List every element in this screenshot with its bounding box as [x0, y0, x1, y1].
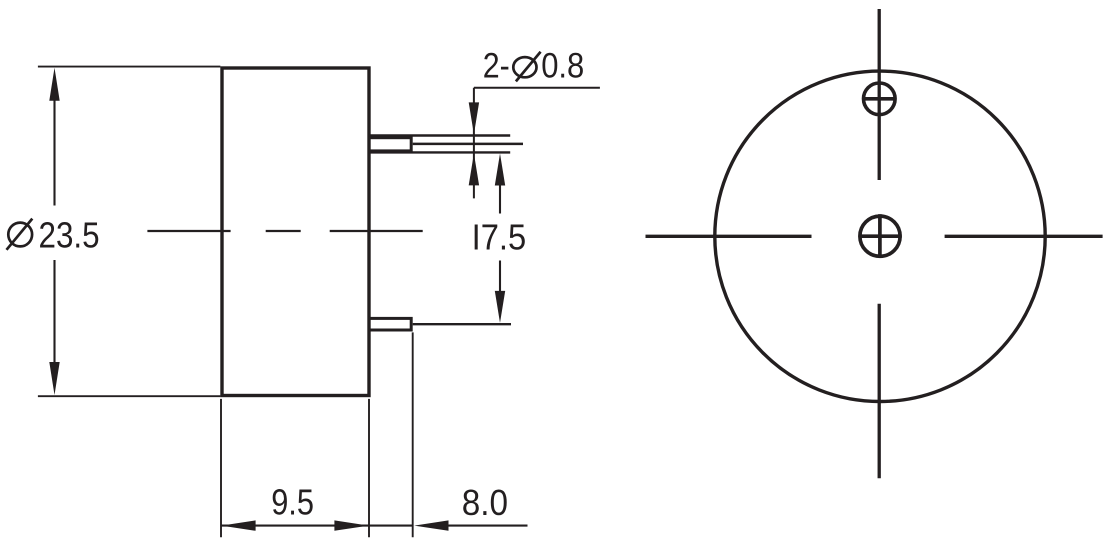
label 9.5: [271, 482, 314, 523]
lower pin stub: [369, 318, 411, 330]
label 17.5: [472, 216, 527, 257]
center line of body (side view): [147, 230, 422, 232]
dimension Ø23.5 line and arrows: [53, 99, 55, 364]
label Ø23.5: [7, 214, 100, 255]
leader line 2-Ø0.8: [474, 88, 600, 199]
dimension 17.5 upper arrow: [499, 184, 501, 214]
extension lines below body: [221, 332, 413, 537]
vertical center line (front view): [878, 9, 881, 478]
label 2-Ø0.8: [483, 47, 585, 86]
upper pin stub: [369, 138, 411, 151]
buzzer body outline (side view): [222, 68, 369, 396]
svg-text:9.5: 9.5: [271, 482, 314, 523]
svg-text:I7.5: I7.5: [472, 216, 527, 257]
horizontal center line (front view): [646, 235, 1103, 238]
label 8.0: [462, 482, 508, 523]
upper lead center line: [413, 143, 523, 146]
dimension Ø23.5 extension lines: [38, 67, 221, 397]
lower lead center line: [413, 323, 511, 325]
svg-text:0.8: 0.8: [541, 47, 584, 86]
buzzer face outline (front view): [715, 71, 1045, 401]
top pin hole (front view): [862, 83, 897, 115]
dimension 17.5 lower arrow: [499, 261, 501, 293]
dimension 8.0 line and arrow: [369, 525, 528, 527]
dimension 9.5 line and arrows: [221, 525, 368, 527]
center pin hole (front view): [859, 214, 902, 257]
svg-text:23.5: 23.5: [39, 214, 100, 255]
upper lead wire outline: [369, 136, 510, 153]
svg-text:2-: 2-: [483, 47, 510, 86]
svg-text:8.0: 8.0: [462, 482, 508, 523]
